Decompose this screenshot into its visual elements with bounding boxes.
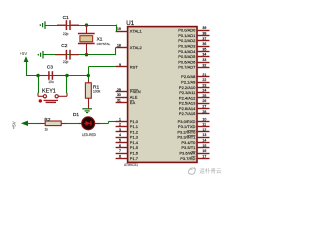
svg-text:P0.7/AD7: P0.7/AD7 <box>178 65 196 70</box>
pin 4 P1.3 (left) <box>116 133 139 139</box>
svg-text:32: 32 <box>202 63 206 67</box>
svg-text:10u: 10u <box>48 80 54 84</box>
svg-text:30: 30 <box>117 93 121 97</box>
svg-text:P1.6: P1.6 <box>130 150 139 155</box>
pin 3 P1.2 (left) <box>116 128 139 134</box>
svg-text:23: 23 <box>202 83 206 87</box>
pin 8 P1.7 (left) <box>116 154 139 160</box>
svg-text:P1.1: P1.1 <box>130 124 139 129</box>
svg-text:P3.6/WR: P3.6/WR <box>179 150 195 155</box>
svg-text:P3.1/TXD: P3.1/TXD <box>178 124 195 129</box>
wire KEY1 left leg <box>38 76 40 94</box>
pin 36 P0.3/AD3 (right) <box>178 42 209 48</box>
svg-text:P2.1/A9: P2.1/A9 <box>181 79 196 84</box>
svg-text:33: 33 <box>202 58 206 62</box>
pin 1 P1.0 (left) <box>116 117 139 123</box>
capacitor C2 22p <box>55 50 79 60</box>
svg-text:36: 36 <box>202 42 206 46</box>
svg-text:C2: C2 <box>61 43 67 49</box>
svg-text:22: 22 <box>202 78 206 82</box>
svg-text:P2.0/A8: P2.0/A8 <box>181 74 196 79</box>
svg-text:19: 19 <box>117 27 121 31</box>
svg-text:KEY1: KEY1 <box>42 88 56 94</box>
svg-text:26: 26 <box>202 99 206 103</box>
wire +5V to RST net <box>26 62 28 76</box>
svg-text:XTAL1: XTAL1 <box>130 29 143 34</box>
svg-text:P3.0/RXD: P3.0/RXD <box>178 119 196 124</box>
svg-text:2: 2 <box>119 123 121 127</box>
svg-text:34: 34 <box>202 53 206 57</box>
svg-text:XTAL2: XTAL2 <box>130 45 143 50</box>
IC U1 AT89C51 microcontroller <box>128 27 197 163</box>
svg-text:P1.7: P1.7 <box>130 156 139 161</box>
svg-text:37: 37 <box>202 37 206 41</box>
svg-text:R2: R2 <box>44 117 50 123</box>
svg-text:28: 28 <box>202 110 206 114</box>
capacitor C3 10u <box>38 71 67 80</box>
pin 33 P0.6/AD6 (right) <box>178 58 209 64</box>
pin 5 P1.4 (left) <box>116 139 139 145</box>
pin 18 XTAL2 (left) <box>116 44 143 50</box>
svg-text:P1.3: P1.3 <box>130 135 139 140</box>
svg-text:C3: C3 <box>47 65 53 71</box>
pin 11 P3.1/TXD (right) <box>178 123 209 129</box>
svg-text:13: 13 <box>202 133 206 137</box>
svg-text:AT89C51: AT89C51 <box>124 163 138 167</box>
wire KEY1 right leg <box>66 76 68 94</box>
svg-text:8: 8 <box>119 154 121 158</box>
svg-text:22p: 22p <box>63 32 69 36</box>
LED D1 LED-RED <box>79 117 100 130</box>
svg-text:16: 16 <box>202 149 206 153</box>
svg-text:CRYSTAL: CRYSTAL <box>97 42 111 46</box>
svg-text:P3.5/T1: P3.5/T1 <box>181 145 196 150</box>
capacitor C1 22p <box>57 20 79 30</box>
wire +5V to R2 <box>27 123 40 125</box>
svg-text:PSEN: PSEN <box>130 89 141 94</box>
svg-text:25: 25 <box>202 94 206 98</box>
KEY1 actuator red dot <box>39 99 42 102</box>
svg-text:24: 24 <box>202 89 206 93</box>
wire D1 to P1.0 <box>99 123 108 125</box>
svg-text:4: 4 <box>119 133 121 137</box>
pin 17 P3.7/RD (right) <box>180 154 209 160</box>
ground (below R1) <box>82 109 92 113</box>
svg-text:18: 18 <box>117 44 121 48</box>
svg-text:38: 38 <box>202 32 206 36</box>
svg-text:P3.2/INT0: P3.2/INT0 <box>177 129 196 134</box>
svg-text:12: 12 <box>202 128 206 132</box>
svg-text:返朴青云: 返朴青云 <box>199 167 222 175</box>
pin 38 P0.1/AD1 (right) <box>178 32 209 38</box>
svg-text:P1.0: P1.0 <box>130 119 139 124</box>
svg-text:P2.4/A12: P2.4/A12 <box>179 95 196 100</box>
ground (left of C2) <box>38 51 43 59</box>
svg-text:U1: U1 <box>126 20 134 27</box>
pin 27 P2.6/A14 (right) <box>179 104 210 110</box>
pin 32 P0.7/AD7 (right) <box>178 63 209 69</box>
pin 22 P2.1/A9 (right) <box>181 78 209 84</box>
wire C2 to XTAL2 net <box>43 54 115 56</box>
svg-text:7: 7 <box>119 149 121 153</box>
svg-text:9: 9 <box>119 63 121 67</box>
svg-text:P1.4: P1.4 <box>130 140 139 145</box>
pin 26 P2.5/A13 (right) <box>179 99 210 105</box>
pin 34 P0.5/AD5 (right) <box>178 53 209 59</box>
svg-text:P3.4/T0: P3.4/T0 <box>181 140 196 145</box>
wire C1 to XTAL1 net <box>45 25 116 27</box>
wire R1 top <box>88 76 90 81</box>
node RST/R1 junction <box>87 74 90 77</box>
svg-text:5: 5 <box>119 139 121 143</box>
svg-text:P0.2/AD2: P0.2/AD2 <box>178 38 196 43</box>
svg-text:P2.3/A11: P2.3/A11 <box>179 90 196 95</box>
pin 31 EA (left) <box>116 98 136 104</box>
svg-text:P0.0/AD0: P0.0/AD0 <box>178 28 196 33</box>
pin 2 P1.1 (left) <box>116 123 139 129</box>
svg-text:1k: 1k <box>45 128 49 132</box>
svg-text:P1.5: P1.5 <box>130 145 139 150</box>
svg-text:C1: C1 <box>63 15 69 21</box>
svg-text:+5V: +5V <box>11 121 16 129</box>
svg-text:15: 15 <box>202 144 206 148</box>
node KEY1 right junction <box>65 74 68 77</box>
pin 25 P2.4/A12 (right) <box>179 94 210 100</box>
svg-text:D1: D1 <box>73 112 79 118</box>
svg-text:35: 35 <box>202 47 206 51</box>
svg-text:P0.1/AD1: P0.1/AD1 <box>178 33 196 38</box>
node KEY1 left junction <box>36 74 39 77</box>
pin 39 P0.0/AD0 (right) <box>178 26 209 32</box>
pin 7 P1.6 (left) <box>116 149 139 155</box>
pin 23 P2.2/A10 (right) <box>179 83 210 89</box>
ground (left of C1) <box>40 21 45 29</box>
svg-text:1: 1 <box>119 117 121 121</box>
pin 35 P0.4/AD4 (right) <box>178 47 209 53</box>
pin 16 P3.6/WR (right) <box>179 149 209 155</box>
svg-text:27: 27 <box>202 104 206 108</box>
svg-text:P0.6/AD6: P0.6/AD6 <box>178 59 196 64</box>
crystal X1 <box>78 25 95 55</box>
svg-text:RST: RST <box>130 64 139 69</box>
svg-text:21: 21 <box>202 73 206 77</box>
svg-text:ALE: ALE <box>130 95 138 100</box>
svg-text:LED-RED: LED-RED <box>82 133 97 137</box>
node XTAL2 net junction <box>85 53 88 56</box>
pin 15 P3.5/T1 (right) <box>181 144 209 150</box>
svg-text:11: 11 <box>202 123 206 127</box>
+5V power terminal (bottom left, LED circuit) <box>21 121 28 126</box>
pin 9 RST (left) <box>116 63 139 69</box>
svg-text:6: 6 <box>119 144 121 148</box>
pin 13 P3.3/INT1 (right) <box>177 133 209 139</box>
svg-text:31: 31 <box>117 98 121 102</box>
svg-text:P1.2: P1.2 <box>130 129 139 134</box>
svg-text:P2.6/A14: P2.6/A14 <box>179 106 196 111</box>
pin 21 P2.0/A8 (right) <box>181 73 209 79</box>
svg-text:P2.5/A13: P2.5/A13 <box>179 101 196 106</box>
svg-text:29: 29 <box>117 88 121 92</box>
svg-text:P0.4/AD4: P0.4/AD4 <box>178 49 196 54</box>
resistor R2 1k <box>40 121 66 126</box>
svg-text:100k: 100k <box>93 90 101 94</box>
svg-text:P2.2/A10: P2.2/A10 <box>179 85 196 90</box>
pin 37 P0.2/AD2 (right) <box>178 37 209 43</box>
pin 28 P2.7/A15 (right) <box>179 110 210 116</box>
svg-text:P0.5/AD5: P0.5/AD5 <box>178 54 196 59</box>
svg-text:3: 3 <box>119 128 121 132</box>
pin 12 P3.2/INT0 (right) <box>177 128 209 134</box>
watermark logo <box>188 168 195 175</box>
svg-text:17: 17 <box>202 154 206 158</box>
pin 30 ALE (left) <box>116 93 138 99</box>
svg-text:14: 14 <box>202 139 206 143</box>
wire R2 to D1 <box>65 123 80 125</box>
svg-text:+5V: +5V <box>20 51 28 56</box>
pin 24 P2.3/A11 (right) <box>179 89 209 95</box>
pin 19 XTAL1 (left) <box>116 27 143 33</box>
node XTAL1 net junction <box>85 23 88 26</box>
pin 6 P1.5 (left) <box>116 144 139 150</box>
svg-text:39: 39 <box>202 26 206 30</box>
push button KEY1 <box>38 93 67 103</box>
svg-text:22p: 22p <box>63 60 69 64</box>
resistor R1 100k <box>85 80 91 108</box>
pin 29 PSEN (left) <box>116 88 141 94</box>
+5V power terminal (top, RST circuit) <box>24 56 29 62</box>
svg-text:P2.7/A15: P2.7/A15 <box>179 111 196 116</box>
pin 14 P3.4/T0 (right) <box>181 139 209 145</box>
svg-text:10: 10 <box>202 117 206 121</box>
pin 10 P3.0/RXD (right) <box>178 117 210 123</box>
svg-text:P0.3/AD3: P0.3/AD3 <box>178 44 196 49</box>
